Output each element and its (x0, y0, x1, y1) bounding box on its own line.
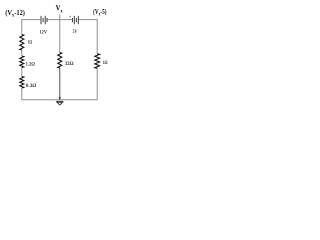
svg-text:(Vx-5): (Vx-5) (93, 7, 107, 18)
svg-text:(Vx-12): (Vx-12) (5, 8, 25, 19)
svg-text:12V: 12V (40, 29, 48, 35)
svg-text:1.2Ω: 1.2Ω (26, 62, 35, 68)
svg-text:Vx: Vx (56, 3, 63, 14)
svg-text:1Ω: 1Ω (103, 60, 108, 66)
svg-text:5V: 5V (73, 29, 78, 35)
svg-text:32Ω: 32Ω (65, 61, 74, 67)
svg-text:1Ω: 1Ω (28, 40, 32, 46)
svg-text:0.3Ω: 0.3Ω (26, 83, 37, 89)
